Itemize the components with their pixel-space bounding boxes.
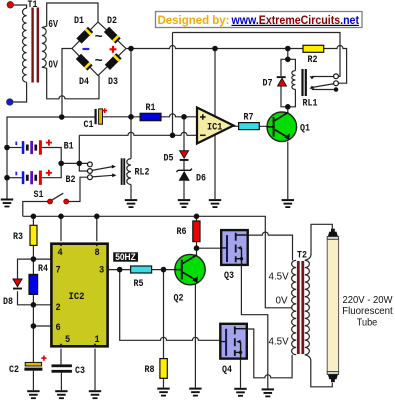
diode D5 xyxy=(180,151,189,161)
svg-text:B1: B1 xyxy=(64,141,74,152)
relay RL2 moving contact arm 2 xyxy=(92,175,113,177)
svg-text:D6: D6 xyxy=(196,174,206,185)
svg-text:6V: 6V xyxy=(49,19,59,30)
svg-text:IC2: IC2 xyxy=(69,291,85,303)
wire: IC1 output through R7 to Q1 base xyxy=(234,125,268,127)
svg-text:Fluorescent: Fluorescent xyxy=(342,306,393,317)
svg-text:R4: R4 xyxy=(38,264,48,275)
wire: Q4 source to ground xyxy=(240,359,242,388)
svg-text:Q4: Q4 xyxy=(222,365,232,376)
svg-text:R6: R6 xyxy=(177,227,187,238)
svg-text:7: 7 xyxy=(56,266,61,277)
ground C3 xyxy=(55,390,67,399)
wire: RL2 contact 2 corner up to IC1 minus wire xyxy=(79,135,87,171)
wire: RL2 coil bottom to ground xyxy=(130,185,132,200)
ground battery negative xyxy=(1,199,13,208)
svg-text:4.5V: 4.5V xyxy=(269,272,290,283)
mains terminal red dot xyxy=(7,2,13,8)
mains terminal blue dot xyxy=(7,99,13,105)
svg-text:1: 1 xyxy=(95,335,100,346)
ground Q2 emitter xyxy=(189,388,201,397)
svg-text:T2: T2 xyxy=(297,251,307,262)
diode D4 xyxy=(76,54,93,71)
svg-text:T1: T1 xyxy=(28,0,38,11)
wire: node to IC2 pin7 xyxy=(33,258,51,260)
svg-text:~: ~ xyxy=(95,54,103,69)
transformer T2 core xyxy=(297,261,304,354)
svg-text:B2: B2 xyxy=(66,175,76,186)
IC1 minus input mark xyxy=(200,134,206,136)
wire: battery junction to RL2 contact 1 xyxy=(61,162,87,164)
relay RL2 moving contact arm 1 xyxy=(92,167,113,171)
switch S1 contact dots xyxy=(48,199,69,204)
resistor R5 xyxy=(131,266,152,273)
diode D7 xyxy=(277,76,287,86)
svg-text:D4: D4 xyxy=(79,77,89,88)
wire: switch S1 left to bottom bus xyxy=(23,202,48,217)
svg-text:5: 5 xyxy=(65,335,70,346)
ground IC2 pin1 xyxy=(89,390,101,399)
wire: RL1/D7 loop xyxy=(281,59,295,107)
svg-text:4.5V: 4.5V xyxy=(269,337,290,348)
wire: C2 to ground xyxy=(32,371,34,391)
wire: pin3 node to Q4 gate (hops x=163.5, x=195.4) xyxy=(120,270,221,341)
wire: B1 plus lead down to junction xyxy=(42,148,61,164)
wire: plus rail to IC1 ground xyxy=(214,49,216,200)
svg-text:C1: C1 xyxy=(84,120,94,131)
svg-text:3: 3 xyxy=(99,266,104,277)
wire: IC2 pin5 to C3 xyxy=(60,349,62,365)
bridge rectifier diamond wires xyxy=(72,22,126,76)
wire: IC2 pin1 to ground xyxy=(94,349,96,391)
wire: T1 secondary 0V tap to bridge bottom vertex (hop over x=62) xyxy=(42,67,99,99)
wire: mains red terminal to T1 primary top xyxy=(14,5,27,8)
T1 6V / 0V labels xyxy=(49,19,59,71)
wire: B2 plus lead up to junction xyxy=(42,163,61,177)
IC2 pin tabs xyxy=(58,243,100,348)
diode D2 xyxy=(104,27,121,44)
transistor Q2 xyxy=(175,254,205,284)
svg-text:~: ~ xyxy=(95,30,103,45)
wire: vertical from top rail to IC1 inverting input xyxy=(172,33,174,136)
resistor R3 xyxy=(30,225,37,245)
relay RL2 armature arrow 1 xyxy=(112,165,116,169)
svg-text:R2: R2 xyxy=(308,55,318,66)
svg-text:Q1: Q1 xyxy=(300,123,310,134)
tube caption xyxy=(342,295,393,328)
wire: node down into Q2 collector xyxy=(196,248,198,257)
IC2 timer chip body xyxy=(51,244,107,347)
relay RL2 contact circle 1 xyxy=(88,162,93,167)
svg-text:2: 2 xyxy=(56,303,61,314)
50HZ tag xyxy=(113,252,138,262)
transformer T2 primary coil xyxy=(292,260,297,354)
relay RL1 contact circle NC xyxy=(334,74,339,79)
C2 plus mark xyxy=(41,356,46,361)
wire: switch S1 right up to RL2 contact 3 xyxy=(69,177,88,201)
resistor R1 xyxy=(140,113,161,120)
svg-text:220V - 20W: 220V - 20W xyxy=(343,295,393,306)
transistor Q1 xyxy=(267,112,297,142)
svg-text:6: 6 xyxy=(56,323,61,334)
wire: bus to IC2 pin4 xyxy=(60,216,62,241)
relay RL2 contact circle 3 xyxy=(88,175,93,180)
relay RL1 armature arrow down xyxy=(310,76,315,79)
wire: R3 node to D8 branch xyxy=(18,259,34,305)
svg-text:Designed by:: Designed by: xyxy=(158,13,230,27)
diode D1 xyxy=(76,27,93,44)
bridge minus mark xyxy=(83,48,90,50)
ground R8 xyxy=(157,388,169,397)
resistor R6 xyxy=(193,221,200,242)
IC1 plus input mark xyxy=(200,114,206,120)
switch S1 arm xyxy=(52,193,64,200)
wire: bus to R6 xyxy=(196,216,198,221)
wire: T2 secondary top to tube top xyxy=(305,224,333,260)
IC2 pin labels xyxy=(56,248,105,346)
zener diode D6 xyxy=(177,169,193,181)
wire: bus to IC2 pin8 xyxy=(96,216,98,241)
svg-text:R1: R1 xyxy=(146,103,156,114)
banner box xyxy=(156,12,363,28)
C1 plus mark xyxy=(102,108,107,113)
MOSFET Q4 xyxy=(220,324,247,359)
diode D3 xyxy=(105,53,122,70)
svg-text:R7: R7 xyxy=(244,113,254,124)
svg-text:8: 8 xyxy=(95,248,100,259)
ground Q1 emitter xyxy=(282,199,294,208)
wire: bus to R3 xyxy=(32,216,34,259)
svg-text:RL1: RL1 xyxy=(303,98,318,109)
relay RL1 armature arrow up xyxy=(310,86,315,89)
svg-text:C3: C3 xyxy=(75,366,85,377)
wire: IC1 inverting input run (hops over x=131, x=184) xyxy=(79,132,197,135)
fluorescent tube xyxy=(327,229,338,383)
svg-text:D7: D7 xyxy=(263,78,273,89)
svg-text:R5: R5 xyxy=(134,279,144,290)
svg-text:0V: 0V xyxy=(276,296,288,307)
resistor R8 xyxy=(160,359,167,379)
wire: IC1 plus node down to D5 xyxy=(183,117,185,151)
wire: rail to RL1/D7 loop top xyxy=(287,49,289,60)
svg-text:R8: R8 xyxy=(145,365,155,376)
bridge AC marks xyxy=(95,30,103,69)
wire: B2 left lead xyxy=(7,177,22,179)
wire: loop bottom to Q1 collector xyxy=(287,107,289,113)
MOSFET Q3 xyxy=(221,230,248,265)
wire: C1 node down to relay RL2 coil xyxy=(130,117,132,159)
svg-text:C2: C2 xyxy=(9,365,19,376)
wire: mains blue terminal to T1 primary bottom xyxy=(13,82,26,102)
wire: IC2 pin3 through R5 to Q2 base xyxy=(108,269,175,271)
resistor R2 xyxy=(303,45,324,52)
relay RL1 coil xyxy=(292,71,296,90)
svg-text:RL2: RL2 xyxy=(135,168,150,179)
svg-text:D1: D1 xyxy=(74,16,84,27)
wire: bottom positive bus to T2 centre tap xyxy=(23,216,293,307)
svg-text:50HZ: 50HZ xyxy=(115,252,136,262)
B1 plus mark xyxy=(46,140,52,146)
B2 plus mark xyxy=(46,170,52,176)
relay RL1 common pole line xyxy=(312,89,334,91)
relay RL2 contact circle 2 xyxy=(88,169,93,174)
wire: Q1 emitter to ground xyxy=(287,142,289,200)
resistor R4 xyxy=(29,274,38,294)
wire: bridge plus down to C1 node xyxy=(130,49,132,117)
wire: Q3 source to ground xyxy=(241,265,267,389)
transformer T2 secondary coil xyxy=(305,260,310,354)
svg-text:www.ExtremeCircuits.net: www.ExtremeCircuits.net xyxy=(231,13,359,27)
svg-text:D3: D3 xyxy=(108,77,118,88)
wire: D6 to ground xyxy=(183,181,185,199)
ground Q4 source xyxy=(234,388,246,397)
wire: D5 to D6 xyxy=(183,161,185,171)
wire: B1 left lead xyxy=(7,147,22,149)
wire: Q3 drain to T2 top tap (hop over x=265.3) xyxy=(248,232,293,260)
wire: node to IC2 pin6 xyxy=(33,325,51,327)
svg-text:4: 4 xyxy=(58,248,63,259)
resistor R7 xyxy=(239,123,260,130)
svg-text:Q2: Q2 xyxy=(174,294,184,305)
svg-text:R3: R3 xyxy=(13,232,23,243)
wire: T1 secondary 6V tap to bridge top vertex xyxy=(42,3,98,28)
wire: node to Q3 gate xyxy=(197,247,222,249)
wire: Q2 base node down to R8 xyxy=(163,270,165,359)
relay RL2 coil xyxy=(127,159,131,185)
transformer T1 secondary coil xyxy=(42,28,46,68)
bridge plus mark xyxy=(110,46,117,53)
capacitor C2 xyxy=(24,362,42,370)
wire: C1 node through R1 to IC1 plus input (hop over x=172.5) xyxy=(103,114,197,117)
capacitor C3 xyxy=(52,364,72,372)
ground C2 xyxy=(27,390,39,399)
wire: R8 to ground xyxy=(163,378,165,387)
relay RL1 core xyxy=(301,69,307,96)
wire: Q4 drain to T2 bottom tap (hop over x=267.8) xyxy=(247,329,292,378)
wire: top rail to relay RL1 NC contact xyxy=(173,33,341,77)
ground D6 xyxy=(178,199,190,208)
wire: Q2 emitter to ground xyxy=(194,285,196,388)
battery B2 xyxy=(15,171,42,185)
svg-text:0V: 0V xyxy=(49,59,59,70)
svg-text:D2: D2 xyxy=(107,16,117,27)
wire: battery negative rail xyxy=(7,117,95,199)
relay RL2 armature arrow 2 xyxy=(112,173,116,177)
relay RL2 core xyxy=(121,158,126,185)
wire: plus rail y=48.5 to R2 (hop over x=172.5) xyxy=(126,46,303,49)
svg-text:D5: D5 xyxy=(164,154,174,165)
ground IC1 xyxy=(209,199,221,208)
wire: chain through R4 down to C2 xyxy=(32,259,34,362)
wire: T2 secondary bottom to tube bottom xyxy=(305,355,333,387)
ground RL2 coil xyxy=(125,199,137,208)
wire: bridge minus output down to battery rail xyxy=(62,49,72,118)
svg-text:S1: S1 xyxy=(34,190,44,201)
T2 voltage labels xyxy=(269,272,290,348)
relay RL1 common pole dot xyxy=(334,87,339,92)
svg-text:IC1: IC1 xyxy=(207,122,222,133)
wire: C3 to ground xyxy=(60,373,62,391)
ground Q3 source xyxy=(262,388,274,397)
relay RL1 contact circle NO xyxy=(334,81,339,86)
svg-text:Tube: Tube xyxy=(357,317,378,328)
wire: R6 to Q2 collector node xyxy=(196,242,198,249)
battery B1 xyxy=(15,140,42,154)
diode D8 xyxy=(13,279,22,290)
wire: R2 to relay RL1 NO contact (hop over x=340) xyxy=(324,46,347,84)
capacitor C1 xyxy=(95,109,103,124)
svg-text:D8: D8 xyxy=(3,297,13,308)
transformer T1 core xyxy=(31,8,39,83)
transformer T1 primary coil xyxy=(23,8,27,82)
relay RL1 moving arm to NO xyxy=(313,84,335,88)
wire: node to IC2 pin2 xyxy=(33,304,51,306)
relay RL1 contact line to NC xyxy=(312,76,334,78)
op-amp IC1 xyxy=(197,108,234,144)
svg-text:Q3: Q3 xyxy=(224,271,234,282)
